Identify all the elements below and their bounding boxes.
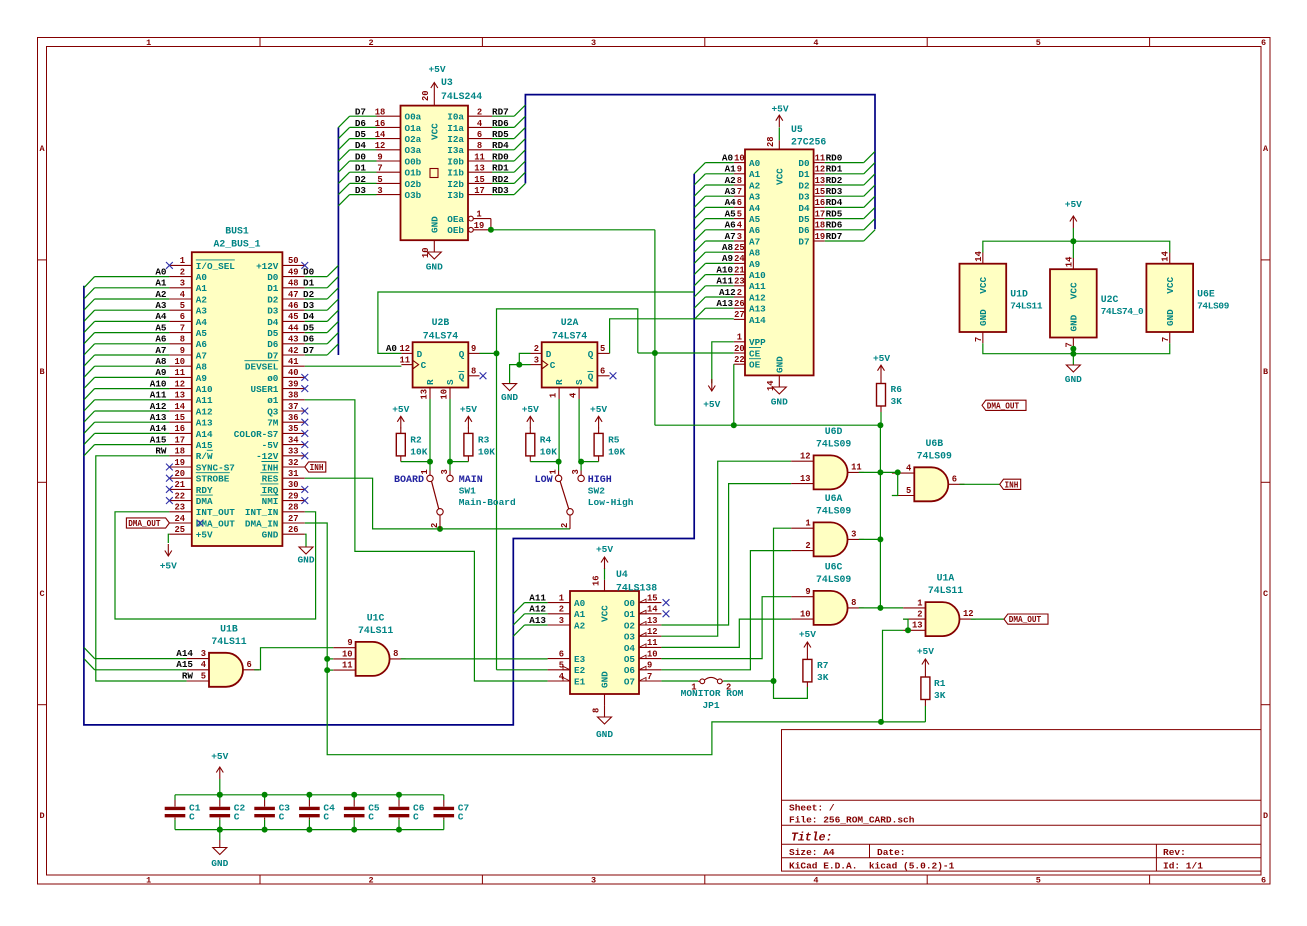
wire A11 to U4 [525, 602, 548, 604]
svg-text:5: 5 [1036, 38, 1041, 48]
svg-text:S: S [445, 379, 456, 385]
svg-text:A9: A9 [722, 253, 734, 264]
svg-text:+5V: +5V [703, 399, 720, 410]
svg-text:DMA_OUT: DMA_OUT [196, 518, 235, 529]
svg-text:Q3: Q3 [267, 406, 279, 417]
ground GND at U2A clock [501, 384, 518, 403]
flip-flop U2A 74LS74 [542, 317, 598, 388]
U5 pin 9 A1 [725, 164, 761, 181]
jumper JP1 MONITOR ROM [681, 677, 744, 711]
wire OEb stub [473, 229, 491, 231]
svg-text:STROBE: STROBE [196, 474, 230, 485]
svg-text:INT_OUT: INT_OUT [196, 507, 235, 518]
svg-text:D0: D0 [798, 158, 810, 169]
wire U2A R down to SW2 LOW [558, 399, 561, 471]
svg-text:RD0: RD0 [826, 152, 843, 163]
BUS1 pin 21 RDY [166, 480, 213, 496]
U2C pin 14 VCC stub [1064, 256, 1074, 269]
svg-text:19: 19 [174, 458, 185, 468]
svg-text:GND: GND [1065, 374, 1082, 385]
wire U2A Q to U5 A14 [610, 319, 734, 354]
svg-text:U2C: U2C [1101, 294, 1119, 305]
svg-text:GND: GND [501, 392, 518, 403]
svg-text:D0: D0 [303, 266, 315, 277]
svg-text:9: 9 [180, 346, 185, 356]
U4 pin 11 O4 [624, 638, 662, 654]
switch SW1 Main-Board [394, 469, 516, 529]
junction +5V rail [1070, 238, 1076, 244]
svg-text:+5V: +5V [211, 751, 228, 762]
svg-text:5: 5 [1036, 876, 1041, 886]
svg-text:4: 4 [737, 221, 743, 231]
wire A5 to U5 [705, 218, 733, 220]
svg-text:U2A: U2A [561, 317, 579, 328]
junction C2 top [217, 792, 223, 798]
svg-text:A2_BUS_1: A2_BUS_1 [213, 238, 260, 249]
svg-text:C: C [234, 812, 240, 823]
svg-text:S: S [574, 379, 585, 385]
junction C5 bottom [351, 827, 357, 833]
svg-text:IRQ: IRQ [262, 485, 279, 496]
BUS1 pin 28 INT_IN [245, 503, 305, 519]
svg-text:15: 15 [815, 187, 826, 197]
svg-text:A2: A2 [196, 294, 208, 305]
svg-text:22: 22 [734, 355, 745, 365]
svg-text:A0: A0 [196, 272, 208, 283]
U2A pin 4 S [569, 388, 580, 400]
svg-text:3: 3 [534, 355, 539, 365]
BUS1 pin 30 IRQ [260, 480, 308, 496]
junction GND rail upper [1070, 346, 1076, 352]
svg-text:O0a: O0a [405, 112, 422, 123]
svg-text:INH: INH [1005, 480, 1019, 490]
BUS1 pin 22 DMA [166, 491, 213, 507]
U4 pin 14 O1 [624, 605, 662, 621]
wire JP1 node up to U6A pin 1 [774, 528, 792, 681]
svg-text:A9: A9 [155, 367, 167, 378]
wire U4 O4 to U6C pin 10 [661, 619, 791, 647]
svg-text:GND: GND [1165, 309, 1176, 326]
U1C pin 11 [333, 661, 355, 671]
svg-text:U1D: U1D [1010, 289, 1028, 300]
BUS1 pin 29 NMI [260, 491, 308, 507]
svg-text:2: 2 [477, 108, 482, 118]
svg-text:D: D [1263, 811, 1268, 821]
svg-text:5: 5 [201, 671, 206, 681]
U6E pin 14 VCC stub [1161, 250, 1171, 263]
junction DMA_IN at U1C pin 11 [324, 667, 330, 673]
junction C4 bottom [306, 827, 312, 833]
wire RD3 from U3 [492, 194, 514, 196]
svg-text:A6: A6 [749, 225, 761, 236]
svg-text:A12: A12 [749, 292, 766, 303]
svg-text:16: 16 [815, 198, 826, 208]
U5 pin 25 A8 [722, 242, 761, 259]
wire A4 to U5 [705, 206, 733, 208]
svg-text:11: 11 [342, 661, 353, 671]
svg-text:9: 9 [471, 344, 476, 354]
junction C3 top [262, 792, 268, 798]
svg-text:39: 39 [288, 379, 299, 389]
svg-text:O5: O5 [624, 654, 636, 665]
svg-text:ø1: ø1 [267, 395, 279, 406]
U6B pin 6 output [948, 474, 964, 484]
U2A pin 6 Q-bar with no-connect [597, 367, 616, 380]
svg-text:D5: D5 [303, 322, 315, 333]
bus entry RD2 U5 [864, 174, 875, 185]
power unit U6E 74LS09 [1146, 264, 1229, 332]
svg-text:E1: E1 [574, 676, 586, 687]
svg-text:A15: A15 [176, 659, 193, 670]
capacitor C4 [299, 795, 335, 830]
bus entry RD7 U3 right [514, 105, 525, 116]
junction R3/SW1 [447, 459, 453, 465]
bus entry A11 [84, 400, 95, 411]
svg-text:17: 17 [815, 209, 826, 219]
svg-text:R5: R5 [608, 435, 620, 446]
junction DMA_IN at U1C pin 10 [324, 656, 330, 662]
svg-text:25: 25 [734, 243, 745, 253]
junction CE branch [652, 350, 658, 356]
bus entry RD6 U5 [864, 219, 875, 230]
bus entry A15 [84, 445, 95, 456]
bus entry A5 [84, 333, 95, 344]
U5 pin 24 A9 [722, 253, 761, 270]
svg-text:R1: R1 [934, 678, 946, 689]
svg-text:35: 35 [288, 424, 299, 434]
svg-text:A0: A0 [749, 158, 761, 169]
BUS1 pin 13 A11 [150, 390, 213, 407]
ground GND below U3 pin 10 [421, 240, 443, 272]
svg-text:32: 32 [288, 458, 299, 468]
bus entry D5 BUS1 [327, 321, 338, 332]
svg-text:A7: A7 [155, 345, 166, 356]
svg-text:RW: RW [155, 446, 167, 457]
svg-text:U5: U5 [791, 124, 803, 135]
svg-text:9: 9 [347, 638, 352, 648]
svg-text:C: C [458, 812, 464, 823]
ground GND below U5 pin 14 [766, 375, 788, 407]
wire D4 to U3 [350, 149, 377, 151]
svg-text:C: C [413, 812, 419, 823]
svg-text:RD3: RD3 [826, 186, 843, 197]
bus entry A4 U5 [694, 207, 705, 218]
svg-text:2: 2 [805, 541, 810, 551]
svg-text:1: 1 [180, 256, 185, 266]
svg-text:I2b: I2b [447, 179, 464, 190]
bus entry A12 U5 [694, 297, 705, 308]
svg-text:49: 49 [288, 267, 299, 277]
junction JP1 net [771, 678, 777, 684]
svg-text:2: 2 [917, 610, 922, 620]
svg-text:GND: GND [297, 555, 314, 566]
svg-text:D4: D4 [303, 311, 315, 322]
svg-text:USER1: USER1 [250, 384, 278, 395]
U3 pin 3 O3b [355, 185, 422, 201]
svg-text:D6: D6 [303, 334, 315, 345]
U2B pin 11 C clock [399, 355, 412, 365]
svg-text:A1: A1 [749, 169, 761, 180]
U2C pin 7 GND stub [1064, 338, 1074, 349]
wire U3 OEa to OEb jog [473, 218, 491, 220]
BUS1 pin 39 USER1 [250, 379, 308, 395]
BUS1 pin 48 D1 [267, 278, 314, 295]
svg-text:D: D [546, 349, 552, 360]
wire A15 BUS1 [95, 444, 170, 446]
BUS1 pin 12 A10 [150, 378, 213, 395]
svg-text:A3: A3 [725, 186, 737, 197]
svg-text:6: 6 [1261, 38, 1266, 48]
title block [782, 730, 1262, 872]
svg-text:RDY: RDY [196, 485, 213, 496]
svg-text:14: 14 [174, 402, 185, 412]
wire GND rail power units [983, 343, 1170, 354]
svg-text:D2: D2 [267, 294, 279, 305]
BUS1 pin 10 A8 [155, 356, 207, 373]
wire A10 BUS1 [95, 388, 170, 390]
svg-text:26: 26 [734, 299, 745, 309]
svg-text:17: 17 [474, 186, 485, 196]
bus entry D0 U3 [338, 161, 349, 172]
U5 pin 3 A7 [725, 231, 761, 248]
svg-text:31: 31 [288, 469, 299, 479]
BUS1 pin 42 D7 [267, 345, 314, 362]
gate U1C 74LS11 [356, 612, 394, 676]
U6A pin 3 output [848, 529, 864, 539]
svg-text:74LS09: 74LS09 [816, 505, 851, 516]
svg-text:U4: U4 [616, 569, 628, 580]
svg-text:A6: A6 [725, 220, 737, 231]
BUS1 pin 37 Q3 [267, 402, 308, 418]
bus entry A11 U5 [694, 286, 705, 297]
wire A4 BUS1 [95, 320, 170, 322]
svg-text:A10: A10 [749, 270, 766, 281]
wire D7 BUS1 [305, 354, 327, 356]
bus entry A6 [84, 344, 95, 355]
bus RD0-RD7 at top [525, 95, 875, 230]
svg-text:D5: D5 [267, 328, 279, 339]
svg-text:1: 1 [737, 333, 742, 343]
svg-text:74LS09: 74LS09 [1197, 301, 1230, 312]
svg-text:+5V: +5V [428, 64, 445, 75]
wire D3 BUS1 [305, 309, 327, 311]
svg-text:D1: D1 [303, 278, 315, 289]
svg-text:3: 3 [440, 469, 450, 474]
svg-text:74LS74_0: 74LS74_0 [1101, 306, 1144, 317]
svg-text:19: 19 [815, 232, 826, 242]
svg-text:A11: A11 [749, 281, 766, 292]
svg-text:Id: 1/1: Id: 1/1 [1163, 860, 1203, 871]
U2A pin 2 D [531, 344, 542, 354]
wire U2B Q net into U4 E2 [497, 669, 548, 671]
svg-text:A4: A4 [749, 203, 761, 214]
svg-text:B: B [39, 367, 44, 377]
wire U1B output to U1C pin 9 [254, 648, 333, 670]
U5 pin 26 A13 [716, 298, 766, 315]
svg-text:74LS11: 74LS11 [211, 636, 246, 647]
svg-text:O6: O6 [624, 665, 636, 676]
U6B pin 5 [892, 486, 914, 496]
svg-text:+12V: +12V [256, 261, 279, 272]
svg-text:VCC: VCC [978, 277, 989, 294]
svg-text:36: 36 [288, 413, 299, 423]
svg-text:74LS09: 74LS09 [816, 438, 851, 449]
bus entry A3 U5 [694, 196, 705, 207]
svg-text:27: 27 [734, 310, 745, 320]
wire A8 to U5 [705, 251, 733, 253]
svg-text:COLOR-S7: COLOR-S7 [234, 429, 279, 440]
svg-text:O2b: O2b [405, 179, 422, 190]
bus A0-A15 address bus left/bottom [84, 174, 694, 725]
power +5V above U4 pin 16 [592, 544, 614, 591]
svg-text:O1a: O1a [405, 123, 422, 134]
svg-text:A6: A6 [196, 339, 208, 350]
U5 pin 12 D1 [798, 164, 842, 181]
wire U2B R down to SW1 BOARD [429, 399, 431, 471]
svg-text:37: 37 [288, 402, 299, 412]
svg-text:A0: A0 [574, 598, 586, 609]
svg-text:A8: A8 [749, 248, 761, 259]
svg-text:7: 7 [1161, 337, 1171, 342]
svg-text:NMI: NMI [262, 496, 279, 507]
junction U1A pin13 [905, 627, 911, 633]
svg-text:4: 4 [813, 876, 818, 886]
svg-text:44: 44 [288, 323, 299, 333]
svg-text:74LS09: 74LS09 [816, 574, 851, 585]
svg-text:D: D [417, 349, 423, 360]
bus entry A1 [84, 288, 95, 299]
svg-text:8: 8 [592, 708, 602, 713]
wire D1 to U3 [350, 171, 377, 173]
svg-text:46: 46 [288, 301, 299, 311]
BUS1 pin 26 GND [262, 525, 305, 541]
svg-text:8: 8 [471, 367, 476, 377]
bus entry D6 BUS1 [327, 333, 338, 344]
ground GND below capacitor rail [211, 827, 228, 869]
BUS1 pin 46 D3 [267, 300, 314, 317]
U6A pin 1 [791, 519, 813, 529]
bus entry RD0 U5 [864, 151, 875, 162]
wire A14 to U1B pin 3 [95, 658, 187, 660]
U3 pin 15 I2b [447, 174, 509, 190]
bus entry A10 U5 [694, 275, 705, 286]
svg-text:4: 4 [559, 672, 565, 682]
wire D0 to U3 [350, 160, 377, 162]
svg-text:Main-Board: Main-Board [459, 497, 516, 508]
svg-text:11: 11 [399, 355, 410, 365]
wire U6C output to U1A pin 1 [859, 607, 903, 609]
junction C5 top [351, 792, 357, 798]
wire +5V rail power units [983, 241, 1170, 252]
svg-text:GND: GND [211, 858, 228, 869]
svg-text:HIGH: HIGH [588, 475, 612, 486]
svg-text:INH: INH [262, 462, 279, 473]
svg-text:INT_IN: INT_IN [245, 507, 278, 518]
svg-text:-5V: -5V [262, 440, 279, 451]
junction C6 bottom [396, 827, 402, 833]
junction U2B Q net at E2 [0, 0, 1, 1]
svg-text:15: 15 [647, 593, 658, 603]
wire U6B pin5 jog [892, 472, 898, 495]
svg-text:O0b: O0b [405, 156, 422, 167]
bus entry A7 [84, 355, 95, 366]
svg-text:A13: A13 [749, 304, 766, 315]
bus D0-D7 data bus at U3 left [337, 127, 339, 355]
global label DMA_OUT at U1A output [1004, 614, 1048, 624]
junction U6D out [877, 469, 883, 475]
gate U6B 74LS09 [914, 438, 952, 502]
svg-text:7: 7 [974, 337, 984, 342]
BUS1 pin 35 COLOR-S7 [234, 424, 308, 440]
wire D3 to U3 [350, 194, 377, 196]
U6E pin 7 GND stub [1161, 332, 1171, 343]
svg-text:10K: 10K [478, 447, 495, 458]
gate U6D 74LS09 [814, 426, 852, 490]
wire A0 BUS1 [95, 276, 170, 278]
svg-text:Low-High: Low-High [588, 497, 634, 508]
wire pullup rail horizontal to R6 [655, 424, 881, 426]
svg-text:A11: A11 [196, 395, 213, 406]
svg-text:8: 8 [477, 141, 482, 151]
svg-text:26: 26 [288, 525, 299, 535]
bus entry A8 [84, 366, 95, 377]
wire A14 BUS1 [95, 432, 170, 434]
U6C pin 8 output [848, 598, 864, 608]
svg-text:10: 10 [647, 649, 658, 659]
svg-text:38: 38 [288, 391, 299, 401]
U3 pin 11 I0b [447, 151, 509, 167]
BUS1 pin 1 I/O_SEL [166, 256, 235, 272]
U3 pin 12 O3a [355, 140, 422, 156]
BUS1 pin 43 D6 [267, 334, 314, 351]
U4 pin 4 E1 [548, 672, 586, 688]
svg-text:A13: A13 [196, 418, 213, 429]
svg-text:3: 3 [201, 649, 206, 659]
svg-text:7: 7 [377, 164, 382, 174]
svg-text:VCC: VCC [600, 605, 611, 622]
U4 pin 5 E2 [548, 661, 586, 677]
U2B pin 8 Q-bar with no-connect [468, 367, 486, 380]
svg-text:21: 21 [174, 480, 185, 490]
U3 pin 14 O2a [355, 129, 422, 145]
wire A6 to U5 [705, 229, 733, 231]
wire A0 to U5 [705, 162, 733, 164]
svg-text:1: 1 [917, 598, 922, 608]
svg-text:A4: A4 [155, 311, 167, 322]
bus entry D0 BUS1 [327, 265, 338, 276]
bus entry RD7 U5 [864, 230, 875, 241]
wire U4 O5 to U6C pin 9 [661, 597, 791, 659]
svg-text:8: 8 [851, 598, 856, 608]
svg-text:6: 6 [737, 198, 742, 208]
svg-text:74LS11: 74LS11 [358, 625, 393, 636]
svg-text:GND: GND [771, 397, 788, 408]
svg-text:6: 6 [247, 660, 252, 670]
BUS1 pin 31 RES [260, 469, 304, 485]
svg-text:28: 28 [766, 136, 776, 147]
junction GND rail [1070, 351, 1076, 357]
svg-text:I0b: I0b [447, 156, 464, 167]
svg-text:U6C: U6C [825, 561, 843, 572]
global label DMA_OUT floating [982, 400, 1026, 410]
svg-text:A15: A15 [150, 434, 167, 445]
bus entry A11 U4 [513, 603, 524, 614]
svg-text:25: 25 [174, 525, 185, 535]
svg-text:3: 3 [591, 38, 596, 48]
svg-text:A8: A8 [196, 362, 208, 373]
junction C2 bottom [217, 827, 223, 833]
svg-text:10: 10 [174, 357, 185, 367]
